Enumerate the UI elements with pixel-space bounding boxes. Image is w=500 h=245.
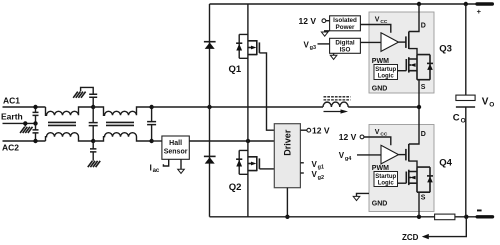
inductor Lboost <box>323 102 419 107</box>
svg-text:Logic: Logic <box>378 181 395 187</box>
svg-text:GND: GND <box>372 86 388 93</box>
svg-text:12 V: 12 V <box>339 132 357 142</box>
buffer Q3 input wire <box>361 41 381 43</box>
current arrow IL <box>324 111 342 113</box>
driver U1 box <box>274 124 300 188</box>
junction AC2-CY2 <box>33 139 37 143</box>
junction Earth-CY1 <box>33 121 37 125</box>
svg-text:g1: g1 <box>318 165 324 171</box>
wire Q4 source <box>418 192 420 217</box>
svg-text:V: V <box>339 151 345 160</box>
capacitor CX1 mid <box>92 107 94 141</box>
hall sensor box <box>162 136 189 159</box>
svg-text:Q1: Q1 <box>229 64 242 75</box>
svg-text:ZCD: ZCD <box>402 233 419 242</box>
wire driver ground <box>286 188 288 217</box>
driver Vg2 pin <box>300 172 303 174</box>
svg-text:D: D <box>421 23 426 30</box>
junction Q3 drain <box>417 2 421 6</box>
svg-text:Earth: Earth <box>1 112 23 122</box>
inductor Lboost core <box>324 97 351 100</box>
wire Q4 drain <box>409 107 419 144</box>
junction shunt left <box>417 215 421 219</box>
capacitor CY4 to chassis bottom <box>92 141 94 161</box>
wire AC2 lead <box>3 140 46 142</box>
resistor Rshunt <box>435 214 455 220</box>
svg-text:I: I <box>150 163 152 173</box>
wire Q4 GaN source <box>409 161 417 167</box>
svg-text:ISO: ISO <box>340 47 351 54</box>
svg-text:Power: Power <box>336 24 355 31</box>
svg-text:ac: ac <box>153 168 160 174</box>
inductor L2 core <box>106 122 134 125</box>
transistor Q2 body diode <box>239 150 248 174</box>
svg-text:V: V <box>375 17 380 24</box>
transistor Q1 channel <box>248 41 257 55</box>
svg-text:g3: g3 <box>310 45 316 51</box>
wire Q3 GaN source <box>409 49 417 55</box>
terminal DC- <box>477 215 492 218</box>
wire AC1 bus <box>152 106 323 108</box>
transistor Q4 GaN channel <box>408 144 410 162</box>
capacitor CX2 <box>151 107 153 141</box>
power stage Q3 shaded block <box>369 12 434 93</box>
transistor Q4 sense FET <box>409 167 417 192</box>
transistor Q3 sense FET <box>409 55 417 80</box>
capacitor CY3 to chassis top <box>81 87 94 107</box>
ground isolated power <box>325 31 330 32</box>
wire DC- rail <box>210 216 477 218</box>
wire AC2 bus right <box>189 140 274 142</box>
wire Q3 Vcc <box>360 25 390 33</box>
hall sensor ground pin <box>180 159 182 169</box>
svg-text:+: + <box>477 7 482 16</box>
svg-text:Startup: Startup <box>375 67 396 73</box>
wire DC+ bus <box>210 3 476 5</box>
wire ZCD <box>429 217 467 237</box>
svg-text:C: C <box>453 112 460 123</box>
capacitor CO <box>456 95 475 100</box>
junction AC2 mid <box>91 139 95 143</box>
inductor L2 bottom winding <box>93 133 151 141</box>
transistor Q2 channel <box>248 157 257 171</box>
wire Q4 gate <box>399 154 406 156</box>
ground digital isolator <box>333 53 335 55</box>
driver 12V terminal <box>300 129 307 131</box>
transistor Q1 gate <box>258 42 260 53</box>
ground chassis bottom <box>88 161 100 167</box>
junction Earth-gnd <box>23 121 27 125</box>
diode Q4 body <box>417 167 430 192</box>
svg-text:Hall: Hall <box>169 140 182 147</box>
wire Q3 source <box>418 80 420 107</box>
transistor Q4 GaN gate <box>405 149 407 161</box>
svg-text:Q3: Q3 <box>439 44 452 55</box>
svg-text:Startup: Startup <box>375 174 396 180</box>
svg-text:O: O <box>461 117 466 124</box>
wire Q1Q2 leg <box>247 4 249 217</box>
ground chassis top <box>73 92 85 98</box>
ground Q4 block <box>357 193 370 196</box>
buffer Q4 input wire <box>357 154 381 156</box>
junction AC1-CY1 <box>33 105 37 109</box>
wire output+ drop <box>465 4 467 95</box>
isolated power box <box>330 16 361 31</box>
inductor L1 top winding <box>46 107 94 115</box>
wire diode leg <box>209 4 211 217</box>
wire AC2 to hall <box>152 140 162 142</box>
svg-text:AC2: AC2 <box>2 143 19 153</box>
diode D2 <box>204 155 216 157</box>
ground earth connection <box>24 123 26 126</box>
svg-text:GND: GND <box>372 200 388 207</box>
wire Q3 startup gate <box>398 70 407 72</box>
startup logic Q4 box <box>374 172 398 187</box>
junction AC1 mid <box>91 105 95 109</box>
transistor Q2 gate <box>258 158 260 169</box>
svg-text:S: S <box>421 195 426 202</box>
wire Q1 gate to driver <box>259 53 274 130</box>
junction driver ground <box>285 215 289 219</box>
power stage Q4 shaded block <box>369 125 434 212</box>
digital isolator box <box>330 38 361 53</box>
svg-text:12 V: 12 V <box>312 126 330 136</box>
transistor Q3 GaN channel <box>408 32 410 50</box>
junction output+ <box>464 2 468 6</box>
svg-text:O: O <box>489 101 494 108</box>
inductor L1 core <box>48 122 76 125</box>
hall sensor output pin <box>163 159 168 166</box>
wire Q4 startup gate <box>398 182 407 184</box>
svg-text:Sensor: Sensor <box>164 149 188 156</box>
svg-text:g4: g4 <box>345 156 352 162</box>
capacitor CY2 Earth-AC2 <box>35 123 37 141</box>
driver Vg1 pin <box>300 162 303 164</box>
junction diode leg <box>207 105 211 109</box>
wire Q2 gate to driver <box>259 168 274 170</box>
svg-text:D: D <box>421 131 426 138</box>
svg-text:Driver: Driver <box>283 129 293 156</box>
wire Earth lead <box>3 122 36 124</box>
inductor L1 bottom winding <box>46 133 94 141</box>
inductor L2 top winding <box>93 107 151 115</box>
svg-text:V: V <box>312 160 318 169</box>
wire Q4 Vcc <box>364 137 391 145</box>
transistor Q1 body diode <box>239 34 248 58</box>
junction AC1 right <box>149 105 153 109</box>
svg-text:V: V <box>482 96 489 107</box>
diode Q3 body <box>417 55 430 80</box>
buffer Q4 triangle <box>381 145 399 164</box>
svg-text:V: V <box>312 170 318 179</box>
startup logic Q3 box <box>374 65 398 80</box>
svg-text:g2: g2 <box>318 175 324 181</box>
svg-text:V: V <box>375 129 380 136</box>
junction AC2 right <box>149 139 153 143</box>
junction switch node <box>417 105 421 109</box>
svg-text:Q4: Q4 <box>439 158 452 169</box>
svg-text:PWM: PWM <box>372 165 389 172</box>
wire Q3 gate <box>399 41 406 43</box>
svg-text:Q2: Q2 <box>229 182 242 193</box>
transistor Q3 GaN gate <box>405 36 407 48</box>
junction Q1Q2 leg <box>246 139 250 143</box>
svg-text:V: V <box>304 40 310 49</box>
svg-text:AC1: AC1 <box>3 96 20 106</box>
diode D1 <box>204 41 216 43</box>
terminal DC+ <box>477 2 492 5</box>
wire AC1 lead <box>3 106 46 108</box>
capacitor CY1 AC1-Earth <box>35 107 37 123</box>
buffer Q3 triangle <box>381 33 399 52</box>
wire Q3 drain <box>409 4 419 32</box>
junction shunt right <box>464 215 468 219</box>
wire Vg3 input <box>318 43 330 45</box>
svg-text:Logic: Logic <box>378 74 395 80</box>
svg-text:12 V: 12 V <box>299 16 317 26</box>
svg-text:S: S <box>421 84 426 91</box>
